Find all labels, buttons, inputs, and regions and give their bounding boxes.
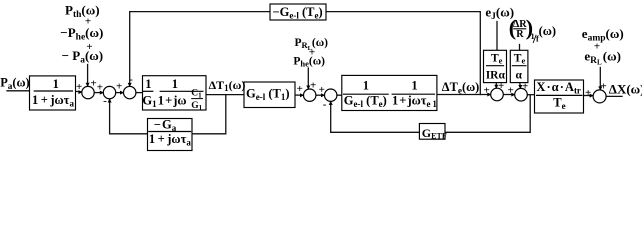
arrowheads at summing junction inputs bbox=[78, 83, 602, 105]
box E2 bar bbox=[512, 65, 527, 67]
node tap T3 down to ETF loop bbox=[445, 95, 530, 133]
svg-text:Phe(ω): Phe(ω) bbox=[293, 55, 325, 68]
svg-text:+: + bbox=[297, 83, 303, 95]
box I: G_ETF bbox=[419, 124, 445, 140]
box B: 1/G1 1/(1+jw C1/G1) bbox=[143, 76, 207, 110]
box G: -G_e-l(Te) top feedback bbox=[270, 4, 326, 20]
wire: S7 to box F bbox=[527, 94, 534, 96]
wire: box A to S1 bbox=[76, 90, 83, 92]
wire: P_a input to box A bbox=[7, 90, 30, 92]
wire: S6 to S7 bbox=[503, 94, 515, 96]
svg-text:ΔX(ω): ΔX(ω) bbox=[609, 82, 642, 97]
box D: 1/G_e-l(Te) 1/(1+jw tau_e1) bbox=[342, 75, 437, 110]
wire: box E1 down into S6 top bbox=[495, 83, 497, 89]
node tap T2 up to top feedback loop bbox=[326, 12, 480, 95]
wire: S5 to box D bbox=[337, 94, 342, 96]
box F bar bbox=[536, 94, 583, 96]
wire: box D to S6 (dTe line) bbox=[437, 94, 491, 96]
wire: box E2 down into S7 top bbox=[519, 83, 522, 89]
svg-text:R: R bbox=[516, 29, 524, 40]
wire: S2 to S3 bbox=[116, 92, 124, 94]
svg-text:(ω): (ω) bbox=[539, 24, 556, 38]
wire: -Ga box output left then up to S2 bottom bbox=[110, 99, 148, 134]
box C: G_e-l(T_1) bbox=[244, 82, 295, 108]
box B frac1 bar bbox=[143, 90, 154, 92]
box B nested bar bbox=[191, 98, 203, 100]
wire: S3 to box B bbox=[136, 92, 143, 94]
wire: box C to S4 bbox=[295, 94, 304, 96]
box A: 1/(1+jw tau_a) bbox=[30, 76, 76, 110]
box D frac1 bar bbox=[343, 93, 389, 95]
wire: e_amp stack down into S8 top bbox=[599, 68, 601, 91]
summing junction S3 bbox=[124, 86, 136, 98]
box B frac2 bar bbox=[160, 90, 204, 92]
wire: S1 to S2 bbox=[94, 92, 103, 94]
box E1 bar bbox=[486, 65, 504, 67]
box E2: Te/alpha bbox=[510, 50, 528, 82]
wire: S4 to S5 bbox=[316, 94, 325, 96]
svg-text:1: 1 bbox=[53, 77, 59, 91]
svg-text:-: - bbox=[323, 99, 327, 111]
svg-text:Pa(ω): Pa(ω) bbox=[0, 75, 29, 90]
svg-text:1 + jωτa: 1 + jωτa bbox=[32, 93, 74, 109]
wire: S8 to output dX bbox=[606, 95, 622, 97]
wire: box B to box C with node tap bbox=[206, 94, 244, 96]
svg-text:+: + bbox=[594, 40, 600, 52]
svg-text:+: + bbox=[498, 80, 504, 92]
svg-text:1: 1 bbox=[363, 78, 369, 92]
svg-text:1 + jωτa: 1 + jωτa bbox=[149, 132, 191, 148]
wire: P_RL stack down into S4 top bbox=[307, 68, 309, 89]
box F: X alpha Atr / Te bbox=[535, 80, 584, 113]
box H: -Ga/(1+jw tau_a) bbox=[148, 119, 193, 151]
svg-text:Pth(ω): Pth(ω) bbox=[65, 3, 100, 21]
summing junction S1 bbox=[82, 86, 94, 98]
box A fraction bar bbox=[34, 90, 73, 92]
summing junction S8 bbox=[593, 90, 606, 103]
box E1: Te/IRalpha bbox=[484, 50, 507, 82]
summing junction S4 bbox=[304, 89, 316, 101]
summing junction S5 bbox=[325, 89, 337, 101]
summing junction S2 bbox=[103, 86, 115, 98]
svg-text:1: 1 bbox=[411, 78, 417, 92]
box D frac2 bar bbox=[392, 93, 436, 95]
wire: G_ETF output left then up to S5 bottom bbox=[331, 102, 420, 133]
dR/R bar bbox=[513, 28, 526, 30]
svg-text:-: - bbox=[103, 95, 107, 107]
wire: box F to S8 bbox=[584, 95, 594, 97]
svg-text:+: + bbox=[116, 81, 122, 93]
summing junction S6 bbox=[491, 88, 504, 101]
wire: dR/R down into box E2 bbox=[519, 45, 521, 51]
node tap T1 down from dT1 line bbox=[192, 95, 226, 134]
wire: top feedback box to S3 top bbox=[130, 12, 270, 87]
summing junction S7 bbox=[515, 88, 528, 101]
svg-text:1 + jω: 1 + jω bbox=[158, 93, 187, 107]
svg-text:+: + bbox=[310, 80, 316, 92]
wire: P stack down into S1 top bbox=[87, 65, 89, 87]
box H bar bbox=[148, 131, 191, 133]
wire: e_J down into box E1 bbox=[496, 22, 498, 51]
svg-text:1: 1 bbox=[145, 77, 151, 91]
svg-text:+: + bbox=[522, 81, 528, 93]
svg-text:1: 1 bbox=[172, 77, 178, 91]
